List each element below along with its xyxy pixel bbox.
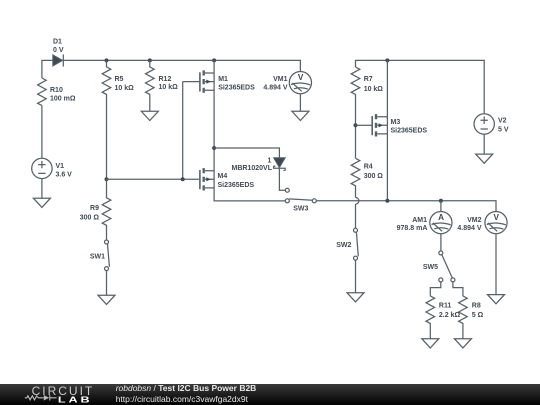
node M3 gate xyxy=(354,123,358,127)
svg-text:4.894 V: 4.894 V xyxy=(457,225,481,232)
svg-text:M3: M3 xyxy=(391,119,401,126)
svg-text:10 kΩ: 10 kΩ xyxy=(159,84,179,91)
wire M1/M4 drain rail xyxy=(214,60,285,201)
svg-text:Si2365EDS: Si2365EDS xyxy=(218,182,255,189)
switch SW2 xyxy=(354,228,359,260)
ground (VM1) xyxy=(292,111,309,120)
wire AM1 to SW5 xyxy=(440,234,442,251)
resistor R11 xyxy=(426,296,435,339)
node AM1 top xyxy=(439,199,443,203)
svg-text:V1: V1 xyxy=(56,163,65,170)
wire V2 to ground xyxy=(483,134,485,154)
svg-text:SW2: SW2 xyxy=(336,242,351,249)
wire top-left net xyxy=(42,60,301,78)
svg-text:VM2: VM2 xyxy=(467,217,482,224)
node gate bus left xyxy=(105,177,109,181)
ammeter AM1 xyxy=(430,212,452,234)
resistor R9 xyxy=(102,179,111,240)
resistor R5 xyxy=(102,60,111,95)
svg-text:5 Ω: 5 Ω xyxy=(472,312,484,319)
wire top-right net xyxy=(356,60,485,114)
svg-text:978.8 mA: 978.8 mA xyxy=(397,225,428,232)
switch SW5 xyxy=(439,251,455,282)
node M3 top xyxy=(385,58,389,62)
svg-text:1: 1 xyxy=(268,158,272,165)
wire gate bus horizontal xyxy=(107,178,199,180)
wire bottom bus xyxy=(316,201,496,212)
ground (R11) xyxy=(422,339,439,348)
wire M3 rail xyxy=(386,60,388,200)
switch SW1 xyxy=(105,240,110,271)
voltmeter VM2 xyxy=(485,212,507,234)
wire R5 to gate bus xyxy=(106,96,108,180)
node R12 top xyxy=(148,58,152,62)
diode MBR1020VL xyxy=(274,158,286,171)
wire R4 to SW2 xyxy=(355,204,357,228)
wire SW5 to R8 xyxy=(453,282,463,296)
svg-text:300 Ω: 300 Ω xyxy=(364,173,384,180)
wire R7 to R4 xyxy=(355,96,357,159)
svg-text:R10: R10 xyxy=(50,87,63,94)
svg-text:R4: R4 xyxy=(364,163,373,170)
svg-text:4.894 V: 4.894 V xyxy=(263,84,287,91)
svg-text:D1: D1 xyxy=(53,39,62,46)
switch SW3 xyxy=(285,188,316,203)
svg-text:A: A xyxy=(438,213,444,222)
transistor M4 xyxy=(200,168,214,190)
resistor R12 xyxy=(146,60,155,111)
banner text xyxy=(116,383,257,404)
svg-text:R7: R7 xyxy=(364,76,373,83)
node M1 top xyxy=(212,58,216,62)
node diode branch xyxy=(212,146,216,150)
svg-text:300 Ω: 300 Ω xyxy=(80,214,100,221)
svg-text:VM1: VM1 xyxy=(273,76,288,83)
voltmeter VM1 xyxy=(289,72,311,94)
svg-text:10 kΩ: 10 kΩ xyxy=(364,86,384,93)
ground (R8) xyxy=(454,339,471,348)
svg-text:R11: R11 xyxy=(439,303,452,310)
wire VM1 to ground xyxy=(299,94,301,112)
ground (SW1) xyxy=(98,295,115,304)
svg-text:V: V xyxy=(493,213,499,222)
wire schottky to SW3 throw xyxy=(279,168,285,190)
resistor R7 xyxy=(351,67,360,96)
svg-text:R5: R5 xyxy=(115,76,124,83)
svg-text:100 mΩ: 100 mΩ xyxy=(50,96,76,103)
svg-text:AM1: AM1 xyxy=(412,217,427,224)
ground (VM2) xyxy=(488,295,505,304)
svg-text:M1: M1 xyxy=(218,76,228,83)
svg-text:MBR1020VL: MBR1020VL xyxy=(232,165,273,172)
svg-text:V: V xyxy=(298,73,304,82)
wire SW5 to R11 xyxy=(430,282,441,296)
voltage source V2 xyxy=(474,114,494,134)
svg-text:V2: V2 xyxy=(498,118,507,125)
wire SW2 to ground xyxy=(355,260,357,293)
ground (SW2) xyxy=(347,293,364,302)
svg-text:0 V: 0 V xyxy=(53,47,64,54)
wire VM2 to ground xyxy=(495,234,497,295)
svg-text:SW3: SW3 xyxy=(293,205,308,212)
resistor R4 xyxy=(351,158,360,197)
resistor R8 xyxy=(459,296,468,339)
CircuitLab logo xyxy=(0,384,110,405)
ground (V1) xyxy=(33,198,50,207)
wire M1 gate rail xyxy=(182,82,184,180)
svg-text:LAB: LAB xyxy=(58,395,93,405)
resistor R10 xyxy=(38,78,47,105)
wire SW1 to ground xyxy=(106,271,108,296)
svg-text:SW1: SW1 xyxy=(90,254,105,261)
node M3 bottom xyxy=(385,199,389,203)
wire to schottky xyxy=(214,148,279,158)
svg-text:SW5: SW5 xyxy=(423,264,438,271)
diode D1 xyxy=(53,54,64,66)
node R5 top xyxy=(105,58,109,62)
node gate bus M1 xyxy=(181,177,185,181)
svg-text:R8: R8 xyxy=(472,303,481,310)
transistor M1 xyxy=(183,70,214,92)
wire bus to AM1 xyxy=(440,201,442,212)
wire V1 to ground xyxy=(41,179,43,199)
voltage source V1 xyxy=(32,158,52,178)
svg-text:R9: R9 xyxy=(90,205,99,212)
svg-text:M4: M4 xyxy=(218,173,228,180)
svg-text:Si2365EDS: Si2365EDS xyxy=(391,128,428,135)
svg-text:Si2365EDS: Si2365EDS xyxy=(218,84,255,91)
ground (R12) xyxy=(141,111,158,120)
transistor M3 xyxy=(356,114,388,136)
svg-text:10 kΩ: 10 kΩ xyxy=(115,85,135,92)
wire hop over bus xyxy=(356,198,359,205)
svg-text:5 V: 5 V xyxy=(498,127,509,134)
svg-text:3.6 V: 3.6 V xyxy=(56,171,73,178)
ground (V2) xyxy=(476,154,493,163)
svg-text:2.2 kΩ: 2.2 kΩ xyxy=(439,312,461,319)
svg-text:R12: R12 xyxy=(159,76,172,83)
wire R10 to V1 xyxy=(41,105,43,158)
